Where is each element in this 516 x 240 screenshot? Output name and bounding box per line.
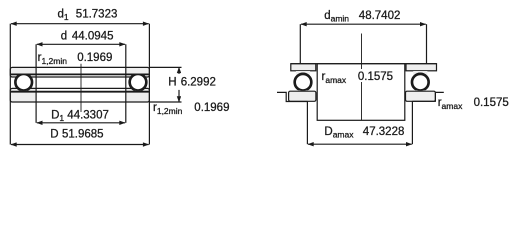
housing washer left xyxy=(289,91,316,101)
ball left xyxy=(16,74,32,90)
housing left: face, recess wall, seat xyxy=(277,92,307,101)
svg-text:ramax: ramax xyxy=(438,97,463,111)
washer section fill top-left xyxy=(10,67,36,77)
svg-text:damin48.7402: damin48.7402 xyxy=(324,10,400,24)
extension line inner-right (bore d / D1) xyxy=(125,44,127,123)
svg-text:H6.2992: H6.2992 xyxy=(168,77,216,89)
bottom washer xyxy=(10,88,149,102)
groove wedge left xyxy=(296,71,310,75)
groove wedge right xyxy=(413,71,427,75)
dimension d line xyxy=(37,43,125,45)
ball right right-figure xyxy=(413,74,429,90)
svg-text:d151.7323: d151.7323 xyxy=(58,9,118,23)
ball left right-figure xyxy=(295,74,311,90)
dimension D line xyxy=(11,144,149,146)
housing right: face, recess wall, seat xyxy=(412,92,443,101)
extension line da left xyxy=(299,24,301,64)
svg-text:D51.9685: D51.9685 xyxy=(50,128,103,140)
groove arc right ball xyxy=(129,73,147,91)
svg-text:r1,2min: r1,2min xyxy=(153,102,183,116)
extension line outer-left xyxy=(9,24,11,145)
groove arc right ball right-figure xyxy=(411,73,429,91)
svg-text:0.1575: 0.1575 xyxy=(474,97,509,109)
extension line outer-right xyxy=(148,24,150,145)
svg-text:0.1969: 0.1969 xyxy=(194,102,229,114)
center line xyxy=(80,64,82,112)
top washer groove line xyxy=(11,73,149,75)
svg-text:D144.3307: D144.3307 xyxy=(51,110,109,124)
top face line xyxy=(291,63,437,65)
central shaft block xyxy=(317,64,405,121)
svg-text:0.1969: 0.1969 xyxy=(77,52,112,64)
svg-text:Damax47.3228: Damax47.3228 xyxy=(324,126,404,139)
H extension bottom xyxy=(149,101,181,103)
H extension top xyxy=(149,66,181,68)
label ra inner xyxy=(355,69,395,82)
extension line inner-left (bore d / D1) xyxy=(35,44,37,123)
groove arc left ball right-figure xyxy=(294,73,312,91)
housing left bore wall / Da extension xyxy=(306,102,308,145)
groove arc left ball xyxy=(15,73,33,91)
dimension Da line xyxy=(308,143,412,145)
shaft washer right xyxy=(406,64,437,71)
extension line da right xyxy=(426,24,428,64)
svg-text:0.1575: 0.1575 xyxy=(358,71,393,83)
washer section fill top-right xyxy=(126,67,150,77)
shaft washer left xyxy=(291,64,316,71)
dimension da line xyxy=(301,23,426,25)
dimension D1 line xyxy=(37,122,125,124)
ball right xyxy=(130,74,146,90)
svg-text:d44.0945: d44.0945 xyxy=(61,31,114,43)
washer section fill bottom-right xyxy=(126,88,150,102)
H dim arrow up xyxy=(178,67,180,74)
washer section fill bottom-left xyxy=(10,88,36,102)
H dim arrow down xyxy=(178,90,180,102)
housing right bore wall / Da extension xyxy=(411,101,413,144)
bottom washer groove line xyxy=(11,91,149,93)
dimension d1 line xyxy=(11,23,149,25)
svg-text:r1,2min: r1,2min xyxy=(38,52,68,66)
top washer xyxy=(10,67,149,77)
housing washer right xyxy=(406,91,436,101)
center line right figure xyxy=(361,34,363,121)
